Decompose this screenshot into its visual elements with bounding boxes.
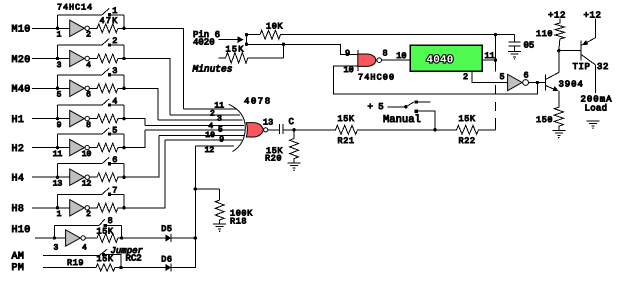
svg-text:+ 5: + 5 — [368, 102, 384, 112]
resistor R22 15K — [435, 125, 495, 134]
svg-text:15K: 15K — [459, 114, 476, 124]
svg-text:3: 3 — [53, 243, 58, 252]
svg-text:Minutes: Minutes — [193, 64, 233, 75]
wire 4078 input pin 9 — [165, 139, 242, 141]
wire H2 input stub — [32, 147, 58, 149]
svg-text:H1: H1 — [12, 115, 25, 126]
svg-text:R20: R20 — [265, 154, 282, 164]
svg-text:R19: R19 — [67, 258, 84, 268]
wire bypass up (H8) — [57, 194, 59, 208]
svg-text:8: 8 — [86, 121, 91, 130]
wire 4040 pin 11 — [482, 59, 495, 61]
wire bus pin11 up to 10K line — [494, 35, 496, 61]
wire bypass up (M40) — [57, 75, 59, 89]
svg-text:H2: H2 — [12, 144, 25, 155]
wire node to D6 — [121, 267, 165, 269]
svg-text:H10: H10 — [12, 225, 31, 236]
resistor (H2 row) — [90, 143, 124, 152]
svg-text:9: 9 — [57, 121, 62, 130]
gate 74HC00 (pins 9,10,8) — [358, 50, 382, 71]
svg-text:2: 2 — [463, 72, 468, 82]
junction minutes resistor tap — [282, 43, 285, 46]
junction H10 output node — [120, 236, 123, 239]
wire bypass top (H10) — [54, 224, 99, 226]
wire bypass top (M40) — [58, 74, 103, 76]
svg-text:15K: 15K — [97, 254, 114, 264]
svg-text:11: 11 — [53, 150, 63, 159]
svg-text:32: 32 — [597, 62, 609, 72]
wire 10K to cap .05 node — [282, 34, 515, 36]
wire H1 to 4078 pin 4 — [124, 119, 145, 126]
svg-text:13: 13 — [263, 118, 273, 128]
junction R19 / jumper node — [119, 266, 122, 269]
svg-text:10: 10 — [82, 150, 92, 159]
junction manual switch pivot — [404, 105, 407, 108]
switch S5 contact — [108, 133, 111, 136]
wire H10 input stub — [35, 237, 54, 239]
wire bypass down (H10) — [121, 225, 123, 238]
wire cap C node to R21 — [294, 129, 334, 131]
svg-text:4040: 4040 — [426, 55, 453, 67]
wire bypass top (H1) — [58, 104, 103, 106]
svg-text:Load: Load — [585, 104, 608, 114]
svg-text:M40: M40 — [12, 85, 31, 96]
junction M40 input — [56, 87, 59, 90]
wire feedback to NAND pin10 — [333, 66, 537, 94]
gate 4078 body (red) — [246, 123, 263, 137]
svg-text:5: 5 — [57, 91, 62, 100]
svg-text:4020: 4020 — [193, 38, 215, 48]
switch S8 lever — [99, 219, 105, 225]
ground below 150 — [552, 130, 565, 138]
svg-text:10: 10 — [396, 51, 406, 61]
junction M20 input — [56, 57, 59, 60]
ground below load — [587, 121, 600, 129]
wire bypass down (H1) — [123, 105, 125, 119]
wire bus up to 4078 pin 12 — [194, 146, 196, 238]
junction node A (10K line) — [245, 33, 248, 36]
switch S7 lever — [102, 188, 109, 194]
wire node B to NAND pin 9 — [247, 44, 358, 54]
wire bypass down (M10) — [123, 15, 125, 28]
junction H8 input — [56, 206, 59, 209]
junction cap C / R20 node — [292, 128, 295, 131]
svg-text:12: 12 — [205, 146, 215, 155]
op-amp-style input arc of 4078 — [229, 104, 246, 151]
switch S2 contact — [108, 43, 111, 46]
wire M10 input stub — [32, 27, 58, 29]
junction H2 output node — [122, 146, 125, 149]
wire contact to node (M10) — [111, 14, 124, 16]
svg-text:4078: 4078 — [244, 97, 272, 107]
wire H10 node to D5 — [122, 237, 166, 239]
wire R19 to node — [117, 267, 122, 269]
wire bypass up (H1) — [57, 105, 59, 119]
svg-text:10: 10 — [205, 131, 215, 140]
resistor (M10 row) — [90, 24, 124, 33]
svg-text:M20: M20 — [12, 55, 31, 66]
wire 4040 pin 2 to inverter pin 5 — [472, 71, 508, 82]
resistor 10K — [247, 30, 283, 39]
wire bypass up (H10) — [53, 225, 55, 238]
wire AM stub — [43, 254, 100, 256]
IC 4040 (green box) — [410, 45, 482, 71]
wire bypass down (H2) — [123, 134, 125, 148]
junction H10 input — [53, 236, 56, 239]
wire H1 input stub — [32, 118, 58, 120]
svg-text:AM: AM — [12, 252, 25, 263]
svg-text:5: 5 — [500, 72, 505, 82]
inverter 74HC14 H1 row (pins 9-8) — [58, 110, 90, 126]
svg-text:+12: +12 — [584, 11, 602, 21]
wire manual lower contact to junction — [418, 111, 435, 130]
wire M40 input stub — [32, 87, 58, 89]
wire R18 tap — [195, 188, 219, 190]
svg-text:3904: 3904 — [559, 80, 584, 90]
resistor R20 15K — [290, 130, 299, 160]
wire contact to node (H1) — [111, 104, 124, 106]
junction H8 output node — [122, 206, 125, 209]
svg-text:RC2: RC2 — [126, 254, 142, 264]
wire 4078 input pin 10 — [159, 134, 244, 136]
resistor (M40 row) — [90, 84, 124, 93]
ground below R20 — [288, 160, 301, 171]
svg-text:1: 1 — [57, 31, 62, 40]
svg-text:8: 8 — [108, 216, 113, 226]
wire 4078 input pin 12 — [196, 145, 235, 147]
svg-text:74HC00: 74HC00 — [358, 73, 395, 83]
svg-text:R18: R18 — [230, 217, 247, 227]
wire minutes resistor up — [283, 44, 285, 58]
capacitor .05 — [509, 35, 521, 52]
svg-text:15K: 15K — [97, 226, 114, 236]
wire 4078 input pin 4 — [145, 125, 244, 127]
svg-text:H4: H4 — [12, 174, 25, 185]
wire contact to node (M40) — [111, 74, 124, 76]
wire bypass top (H2) — [58, 133, 103, 135]
inverter 74HC14 H8 row (pins 1-2) — [58, 200, 90, 216]
ground below R18 — [213, 221, 226, 232]
junction M10 output node — [122, 27, 125, 30]
svg-text:11: 11 — [214, 102, 224, 111]
junction pin11 / bus — [494, 59, 497, 62]
wire bus pin11 down (dashed) — [494, 60, 496, 130]
junction H4 input — [56, 176, 59, 179]
junction 110/collector/TIP base — [557, 49, 560, 52]
junction M10 input — [56, 27, 59, 30]
junction base node — [536, 81, 539, 84]
resistor (H8 row) — [90, 203, 124, 212]
junction node B (pin9 line) — [245, 43, 248, 46]
wire H4 to 4078 pin 10 — [124, 135, 159, 177]
svg-text:15K: 15K — [338, 114, 355, 124]
wire contact to node (H10) — [107, 224, 122, 226]
svg-text:6: 6 — [524, 71, 529, 81]
switch S7 contact — [108, 193, 111, 196]
wire bypass top (H4) — [58, 163, 103, 165]
switch S3 contact — [108, 73, 111, 76]
junction M20 output node — [122, 57, 125, 60]
wire inverter output to 3904 base — [528, 82, 546, 84]
svg-text:5: 5 — [218, 125, 223, 134]
svg-text:9: 9 — [219, 135, 224, 144]
inverter 74HC14 M40 row (pins 5-6) — [58, 80, 90, 96]
junction D5 / bus — [194, 236, 197, 239]
svg-text:1: 1 — [57, 210, 62, 219]
wire M10 to 4078 pin 11 — [124, 28, 184, 109]
resistor (H1 row) — [90, 114, 124, 123]
manual switch upper contact — [415, 101, 418, 104]
svg-text:D5: D5 — [161, 224, 172, 234]
wire bypass up (M20) — [57, 45, 59, 59]
wire bypass down (M20) — [123, 45, 125, 59]
arrow from Pin 6 4020 — [219, 36, 244, 43]
resistor R21 15K — [334, 125, 435, 134]
switch S4 lever — [102, 99, 109, 105]
svg-text:R22: R22 — [459, 136, 476, 146]
transistor Q2 TIP32 (PNP) — [581, 38, 595, 65]
svg-text:15K: 15K — [226, 44, 245, 54]
bubble 4078 output — [264, 128, 268, 132]
wire H2 to 4078 pin 5 — [124, 130, 145, 147]
manual switch lower contact — [415, 110, 418, 113]
wire +5 to switch pivot — [388, 106, 406, 108]
diode D5 — [165, 234, 171, 242]
junction H1 input — [56, 117, 59, 120]
inverter 74HC14 M20 row (pins 3-4) — [58, 50, 90, 66]
wire PM stub — [43, 267, 95, 269]
jumper RC2 lever — [100, 249, 108, 255]
wire jumper to PM node — [105, 255, 121, 268]
wire D5 to bus — [171, 237, 195, 239]
resistor 15K (Minutes) — [219, 53, 284, 64]
inverter 74HC14 H10 row (pins 3-4) — [54, 230, 85, 246]
svg-text:3: 3 — [57, 61, 62, 70]
inverter 74HC14 pins 5-6 (driver) — [508, 74, 529, 90]
resistor R19 15K — [95, 264, 117, 271]
switch S6 lever — [102, 157, 109, 163]
switch S5 lever — [102, 128, 109, 134]
switch S2 lever — [102, 39, 109, 45]
wire contact to node (H4) — [111, 163, 124, 165]
resistor (M20 row) — [90, 54, 124, 63]
resistor R18 100K — [215, 189, 224, 221]
svg-text:10K: 10K — [266, 22, 283, 32]
inverter 74HC14 H4 row (pins 13-12) — [58, 169, 90, 185]
wire bypass down (M40) — [123, 75, 125, 89]
svg-text:47K: 47K — [100, 16, 119, 26]
wire bypass down (H8) — [123, 194, 125, 208]
junction H2 input — [56, 146, 59, 149]
wire bypass top (M10) — [58, 14, 103, 16]
svg-text:150: 150 — [536, 115, 553, 125]
wire H8 to 4078 pin 9 — [124, 140, 165, 208]
resistor R 110 — [555, 19, 564, 51]
svg-text:3: 3 — [217, 115, 222, 124]
svg-text:C: C — [289, 117, 295, 127]
svg-text:R21: R21 — [338, 136, 355, 146]
wire junction to TIP32 base — [559, 50, 581, 52]
wire H4 input stub — [32, 176, 58, 178]
svg-text:D6: D6 — [161, 255, 172, 265]
junction H1 output node — [122, 117, 125, 120]
wire bypass top (H8) — [58, 193, 103, 195]
wire 4078 input pin 2 — [170, 114, 240, 116]
junction bus / R18 tap — [194, 187, 197, 190]
switch S4 contact — [108, 104, 111, 107]
svg-text:+12: +12 — [548, 11, 566, 21]
svg-text:13: 13 — [53, 180, 63, 189]
wire cap C to node — [283, 129, 294, 131]
svg-text:TIP: TIP — [573, 62, 591, 72]
wire 4078 input pin 11 — [184, 108, 237, 110]
junction R21/R22/manual — [433, 128, 436, 131]
ground below .05 cap — [508, 52, 521, 60]
svg-text:2: 2 — [86, 210, 91, 219]
wire D6 to bus corner — [171, 238, 195, 268]
junction 10K line / 4040 pin11 bus — [494, 33, 497, 36]
inverter 74HC14 H2 row (pins 11-10) — [58, 139, 90, 155]
switch S1 contact — [108, 13, 111, 16]
resistor R 150 — [554, 106, 563, 130]
svg-text:PM: PM — [12, 263, 25, 274]
svg-text:6: 6 — [86, 91, 91, 100]
svg-text:9: 9 — [345, 48, 350, 58]
wire manual upper contact stub — [418, 101, 430, 103]
wire bypass down (H4) — [123, 164, 125, 178]
svg-text:4: 4 — [86, 61, 91, 70]
svg-text:4: 4 — [82, 243, 87, 252]
jumper RC2 contact — [102, 253, 105, 256]
wire TIP32 collector down — [594, 65, 596, 93]
wire 4078 input pin 3 — [158, 119, 243, 121]
wire H8 input stub — [32, 207, 58, 209]
wire contact to node (M20) — [111, 44, 124, 46]
switch S8 contact — [104, 224, 107, 227]
diode D6 — [165, 263, 171, 271]
wire contact to node (H2) — [111, 133, 124, 135]
inverter 74HC14 M10 row (pins 1-2) — [58, 20, 90, 36]
junction M40 output node — [122, 87, 125, 90]
wire node A to node B — [246, 35, 248, 45]
svg-text:2: 2 — [86, 31, 91, 40]
svg-text:Manual: Manual — [383, 114, 421, 126]
svg-text:10: 10 — [344, 65, 354, 75]
svg-text:2: 2 — [210, 109, 215, 118]
wire bypass top (M20) — [58, 44, 103, 46]
wire 4078 output to cap C — [268, 129, 280, 131]
manual switch lever — [406, 102, 414, 107]
wire 4078 input pin 5 — [145, 129, 245, 131]
wire 3904 emitter down — [558, 91, 560, 106]
wire M40 to 4078 pin 3 — [124, 88, 158, 120]
resistor 15K (H10 row) — [86, 234, 122, 243]
svg-text:74HC14: 74HC14 — [57, 3, 93, 13]
capacitor C — [279, 124, 283, 134]
transistor Q1 2N3904 — [546, 72, 559, 91]
wire bypass up (H4) — [57, 164, 59, 178]
wire bypass up (M10) — [57, 15, 59, 28]
svg-text:M10: M10 — [12, 25, 31, 36]
wire contact to node (H8) — [111, 193, 124, 195]
switch S6 contact — [108, 162, 111, 165]
svg-text:8: 8 — [383, 48, 388, 58]
wire NAND output to 4040 pin 10 — [382, 59, 411, 61]
svg-text:12: 12 — [82, 180, 92, 189]
svg-text:H8: H8 — [12, 204, 25, 215]
wire bypass up (H2) — [57, 134, 59, 148]
wire 3904 collector up — [558, 51, 560, 73]
svg-text:110: 110 — [536, 29, 553, 39]
switch S3 lever — [102, 68, 109, 74]
svg-text:4: 4 — [208, 122, 213, 131]
svg-text:05: 05 — [524, 41, 535, 51]
wire M20 to 4078 pin 2 — [124, 59, 170, 115]
wire M20 input stub — [32, 58, 58, 60]
wire +12 to TIP32 emitter — [594, 19, 596, 38]
junction H4 output node — [122, 176, 125, 179]
switch S1 lever — [102, 8, 109, 14]
resistor (H4 row) — [90, 173, 124, 182]
